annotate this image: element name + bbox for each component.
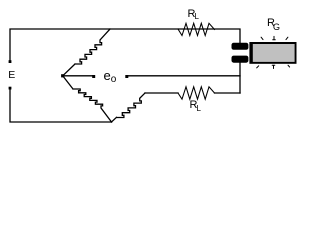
wire middle rail left (vertex to eo left dot) — [63, 75, 94, 77]
resistor RL top zigzag — [178, 23, 215, 35]
label RG strain gauge — [267, 17, 280, 32]
wire middle rail right (eo right dot to right vertical) — [126, 75, 240, 77]
strain tick bottom-right — [288, 65, 290, 67]
strain gauge terminal tab top — [232, 43, 249, 50]
strain tick top-left — [261, 37, 263, 39]
node eo left dot — [92, 75, 95, 78]
wire top rail — [10, 29, 240, 62]
resistor bridge arm top-left — [63, 29, 110, 76]
resistor bridge arm bottom-right — [112, 93, 146, 122]
label RL bottom — [190, 99, 201, 113]
node eo right dot — [125, 75, 128, 78]
strain tick top-right — [286, 37, 288, 39]
wire right vertical (gauge bottom tab to bottom branch) — [239, 63, 241, 93]
strain gauge body gray element — [253, 44, 295, 62]
label RL top — [188, 8, 199, 22]
node battery terminal bottom — [9, 87, 12, 90]
node bridge vertex dot — [61, 74, 64, 77]
strain tick bottom-center — [272, 65, 275, 68]
resistor RL bottom zigzag — [178, 87, 215, 99]
strain gauge body outer — [249, 42, 296, 64]
strain tick top-center — [273, 36, 276, 39]
label eo (bridge output) — [104, 68, 117, 85]
wire bottom branch horizontals — [145, 92, 178, 94]
label E (battery voltage) — [8, 69, 15, 81]
resistor bridge arm bottom-left — [63, 76, 112, 122]
node battery terminal top — [9, 60, 12, 63]
strain tick bottom-left — [257, 66, 259, 68]
strain gauge terminal tab bottom — [232, 56, 249, 63]
wire left lower + bottom rail — [10, 88, 112, 122]
